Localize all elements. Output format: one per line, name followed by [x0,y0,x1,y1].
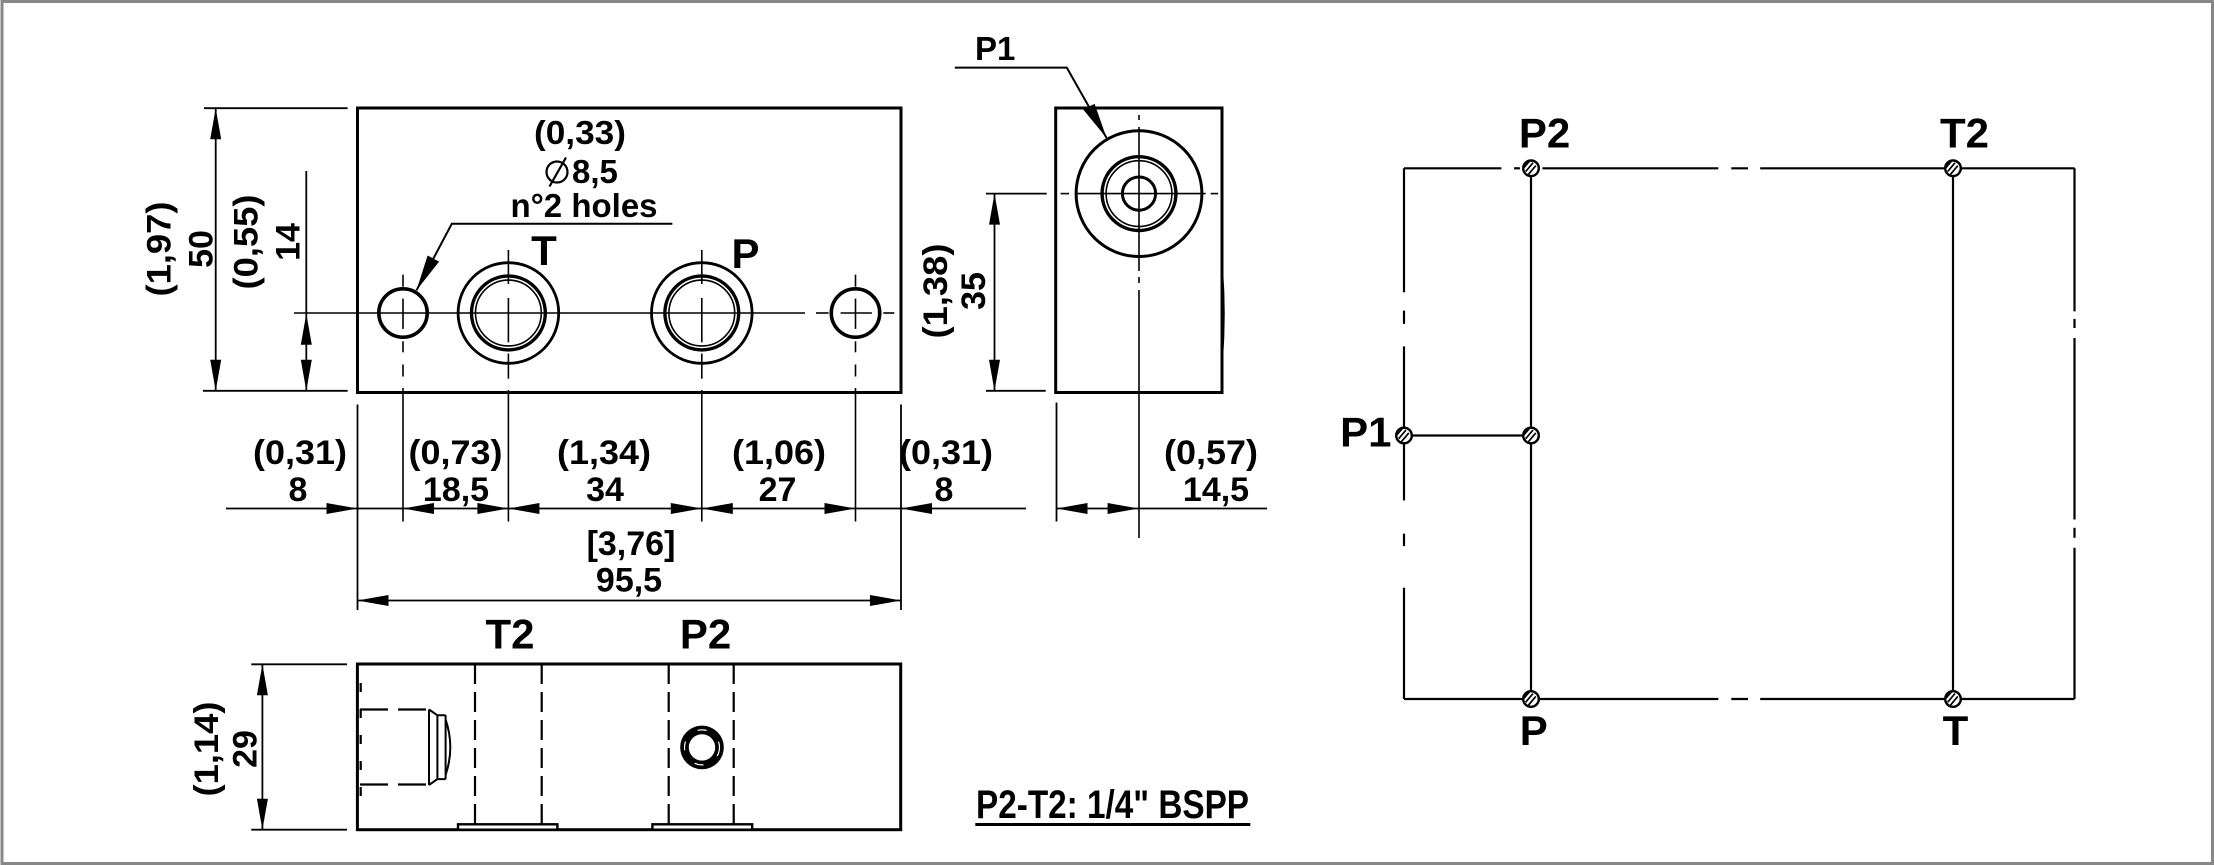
svg-text:P1: P1 [975,30,1015,67]
svg-text:50: 50 [183,230,221,268]
svg-text:(1,97): (1,97) [141,202,179,297]
arrowheads dimension row [327,503,1139,514]
port P1 circles [1076,131,1202,257]
chained dimension line [226,508,1026,510]
gallery line P2-P [1530,176,1532,691]
svg-text:8: 8 [935,471,954,509]
svg-text:8: 8 [289,471,308,509]
svg-text:P1: P1 [1340,409,1391,456]
phantom outline bottom edge [1404,698,2075,700]
svg-text:[3,76]: [3,76] [587,525,676,563]
T2 hidden hole lines [474,664,476,824]
phantom outline left edge [1403,168,1405,699]
svg-text:P2: P2 [680,611,731,658]
svg-text:(0,57): (0,57) [1164,434,1258,472]
svg-text:(0,31): (0,31) [899,434,993,472]
side view body outline [1056,108,1222,393]
extension lines [358,403,1057,610]
svg-text:T2: T2 [1940,110,1989,157]
svg-text:35: 35 [955,272,993,310]
side port bump on right edge [1222,268,1224,360]
horizontal centerline of ports [294,312,894,314]
centerline hole left [402,275,404,522]
gallery line P1 junction [1412,434,1523,436]
gallery line T2-T [1952,176,1954,691]
phantom outline right edge [2073,168,2075,699]
T2 pad [458,824,557,829]
note diameter 8,5 [547,153,618,190]
P2 orifice circle [685,730,720,765]
mounting hole left [379,289,427,337]
centerline port T [507,250,509,522]
bottom view body outline [357,664,900,830]
dimension 14 line [305,171,307,391]
P2 pad [652,824,752,829]
svg-text:(0,33): (0,33) [534,114,626,151]
phantom outline top edge [1404,167,2075,169]
dimension 50 line [203,108,348,391]
svg-text:(0,73): (0,73) [409,434,503,472]
svg-text:34: 34 [586,471,624,509]
svg-text:14: 14 [270,223,308,261]
centerline P1 vertical [1138,115,1140,538]
port P [652,263,753,364]
svg-text:29: 29 [227,730,265,768]
svg-text:(1,14): (1,14) [188,702,226,797]
svg-text:14,5: 14,5 [1183,471,1249,509]
svg-text:P2: P2 [1519,110,1570,157]
centerline port P [701,250,703,522]
node P2 [1523,161,1539,177]
svg-text:(1,06): (1,06) [732,434,826,472]
svg-text:n°2 holes: n°2 holes [510,187,657,224]
svg-text:T2: T2 [485,611,534,658]
node junction P1-P2 [1523,428,1539,444]
node T [1945,691,1961,707]
svg-text:(0,31): (0,31) [253,434,347,472]
dimension texts row [253,434,1258,509]
front view body outline [358,108,902,393]
svg-text:(1,34): (1,34) [557,434,651,472]
svg-text:P: P [1520,707,1548,754]
dimension 95,5 [358,600,902,602]
svg-text:P2-T2: 1/4" BSPP: P2-T2: 1/4" BSPP [976,783,1249,827]
dimension 29 [251,664,347,829]
port T [458,263,559,364]
centerline hole right [855,275,857,522]
leader n°2 holes [417,224,673,290]
P2 hidden hole lines [668,664,670,824]
dimension 35 line [986,194,1047,391]
cavity hidden lines [360,708,429,710]
svg-text:18,5: 18,5 [423,471,489,509]
svg-text:8,5: 8,5 [572,153,618,190]
svg-text:(0,55): (0,55) [228,195,266,290]
centerline P1 horizontal [1061,193,1219,195]
svg-text:T: T [531,227,557,274]
hidden line near left edge [360,683,362,810]
node P [1523,691,1539,707]
cartridge plug profile [429,710,450,786]
node T2 [1945,161,1961,177]
leader P1 [955,68,1107,138]
svg-text:27: 27 [759,471,797,509]
node P1 [1396,428,1412,444]
svg-text:95,5: 95,5 [596,562,662,600]
svg-text:(1,38): (1,38) [917,244,955,339]
svg-text:T: T [1943,707,1969,754]
svg-text:P: P [731,230,759,277]
mounting hole right [831,289,879,337]
